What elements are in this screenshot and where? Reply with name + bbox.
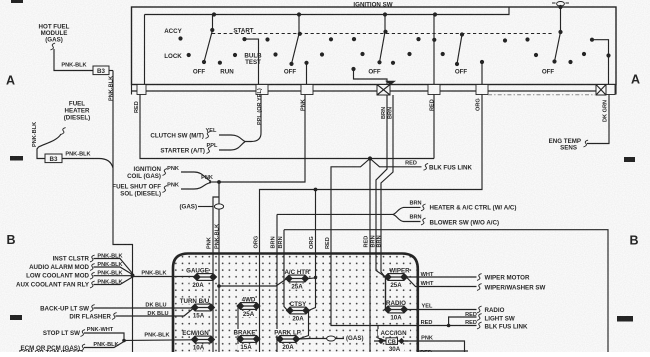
node PNK splice <box>217 180 221 184</box>
fuse CTSY 20A <box>287 301 310 323</box>
switch group 5 contacts <box>555 7 561 62</box>
wire ignition coil branch <box>181 172 211 181</box>
wire fuel shut off branch <box>181 183 211 189</box>
wire fuel heater to B3 <box>37 134 61 159</box>
terminal wiper motor <box>477 274 482 281</box>
terminal ignition coil <box>163 169 168 176</box>
oval connector (GAS) on PNK-BLK wire <box>214 204 223 209</box>
terminal audio alarm mod <box>90 264 95 271</box>
wire PPL (OR YEL) from ignition sw <box>245 95 261 142</box>
connector B3 (top) <box>93 66 109 75</box>
node junction RED dot <box>331 159 418 326</box>
fuse A/C HTR 25A <box>284 269 310 291</box>
wire CTSY to PARK LP right side <box>299 311 309 340</box>
switch group 2 contacts <box>292 15 300 64</box>
terminal hot fuel module <box>51 43 56 50</box>
wire ACC/IGN output PNK <box>405 341 465 352</box>
wire DK BLU dir flasher <box>116 309 193 316</box>
node ORG junction <box>314 188 318 192</box>
switch group 3 contacts <box>380 15 386 63</box>
registration bar left mid <box>10 156 23 161</box>
registration bar left lower <box>10 315 22 320</box>
wire DK GRN to eng temp sens <box>587 95 609 144</box>
ignition switch box <box>132 7 617 85</box>
wire RED out of block to LIGHT SW / BLK FUS LINK <box>418 325 477 327</box>
wire RED from ignition sw right drop <box>433 95 435 159</box>
dashed START line <box>212 33 553 35</box>
terminal stop lt sw <box>81 330 86 337</box>
fuse GAUGE 20A <box>186 267 216 289</box>
wire ECM OR PCM branch <box>84 342 124 348</box>
terminal back-up lt sw <box>90 305 95 312</box>
wire PARK LP right to (GAS) oval <box>299 338 345 341</box>
wire 4WD/BRAKE left column <box>237 306 239 352</box>
fuse PARK LP 20A <box>274 329 302 351</box>
terminal inst clstr <box>90 255 95 262</box>
wire RED center down through block <box>369 159 371 353</box>
wire PNK-BLK to ECM/IGN fuse <box>124 339 193 342</box>
terminal wiper/washer sw <box>477 284 482 291</box>
switch group 4 contacts <box>433 15 435 85</box>
terminal clutch sw <box>206 132 211 139</box>
wire INST CLSTR group merge <box>94 259 133 274</box>
wire hot fuel module to B3 <box>54 49 93 71</box>
registration bar right mid <box>624 157 635 162</box>
wire ORG from ignition sw across and down <box>260 95 483 307</box>
terminal light sw <box>477 314 482 321</box>
wire drop to ACC/IGN CB <box>378 326 387 342</box>
fuse block (stippled) <box>173 254 418 353</box>
fusible link X left <box>377 85 390 96</box>
node PNK-BLK junction <box>131 274 135 278</box>
wire trunk PNK-BLK left side <box>113 71 133 353</box>
terminal blk fus link upper <box>424 163 429 170</box>
wire vertical to PARK LP left <box>276 214 278 352</box>
dashed strip segment <box>488 94 596 96</box>
terminal ecm or pcm <box>81 344 86 351</box>
wire long line to bottom right box <box>284 230 608 352</box>
wire RADIO output YEL <box>407 309 477 311</box>
bus wire <box>145 7 510 15</box>
connector strip <box>132 90 617 92</box>
registration bar right lower <box>617 316 633 322</box>
terminal blk fus link lower <box>477 322 482 329</box>
wire BRN pair from fusible link <box>376 95 387 277</box>
fusible link X right <box>596 85 606 96</box>
terminal fuel heater <box>61 128 66 135</box>
wire YEL clutch sw branch <box>219 135 245 142</box>
fuse 4WD 25A <box>237 296 260 318</box>
oval connector (GAS) near ACC/IGN <box>327 336 336 341</box>
terminal heater a/c ctrl <box>421 204 426 211</box>
terminal blower sw <box>421 218 426 225</box>
wire PPL starter branch <box>219 142 245 150</box>
wire DK BLU back-up lt sw <box>94 307 193 310</box>
terminal aux coolant fan rly <box>90 281 95 288</box>
wire PNK from ignition sw <box>219 95 305 183</box>
wire to DK GRN output <box>592 40 609 85</box>
terminal eng temp sens <box>584 140 589 147</box>
fuse WIPER 25A <box>385 267 411 289</box>
connector tabs under box <box>132 85 617 95</box>
wire A/C HTR feed branch <box>219 279 287 286</box>
terminal radio <box>477 306 482 313</box>
wire ORG column lower <box>259 306 261 352</box>
wire RED bottom cut <box>418 350 468 352</box>
wire RED to BLK FUS LINK <box>370 159 422 167</box>
wire PNK-BLK to GAUGE fuse <box>133 276 195 278</box>
wire ORG branch down to A/C HTR + CTSY <box>315 190 317 278</box>
connector B3 (lower) <box>45 154 62 163</box>
switch group 1 contacts <box>204 15 213 63</box>
wire WIPER outputs WHT <box>407 276 477 278</box>
fuse TURN B/U 15A <box>180 298 215 320</box>
battery feed symbol <box>557 2 565 7</box>
PPL drop from START contact <box>245 39 259 84</box>
breaker ACC/IGN CB 30A <box>374 329 410 353</box>
wire RED from ignition sw left <box>140 95 434 159</box>
fuse RADIO 10A <box>385 300 408 322</box>
wire PNK-WHT stop lt sw <box>84 333 124 341</box>
wire BRN single to heater/blower Y-split <box>277 213 393 215</box>
terminal starter <box>207 147 212 154</box>
terminal fuel shut off sol <box>163 186 168 193</box>
registration bar top left <box>11 0 23 3</box>
wire PNK-BLK vertical through (GAS) oval <box>218 182 220 352</box>
wire PNK vertical to fuse column <box>213 197 219 352</box>
terminal low coolant mod <box>90 272 95 279</box>
wire WIPER-RADIO left feed <box>385 277 387 310</box>
fuse BRAKE 15A <box>233 329 259 351</box>
fuse ECM/IGN 10A <box>182 330 214 352</box>
terminal dir flasher <box>112 313 117 320</box>
